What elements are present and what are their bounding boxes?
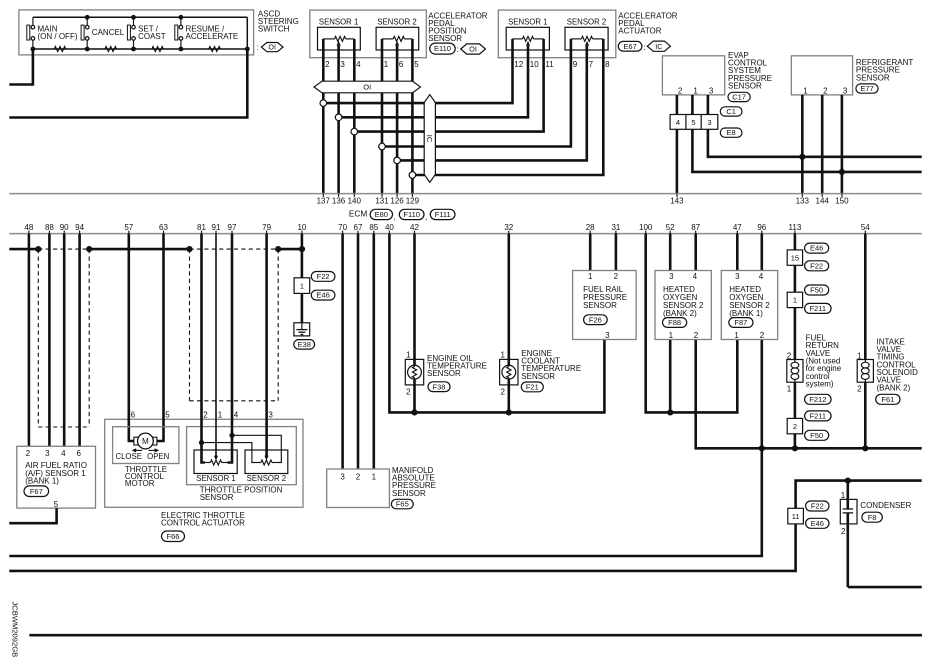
- svg-text:(BANK 1): (BANK 1): [25, 477, 59, 486]
- connector code E46 oval: [805, 243, 829, 253]
- connector code E77 oval: [856, 84, 878, 93]
- svg-text:F26: F26: [589, 315, 602, 324]
- svg-text:2: 2: [841, 527, 846, 536]
- accelerator pedal position sensor box E110: [310, 10, 427, 58]
- svg-text:1: 1: [406, 351, 411, 360]
- svg-text:E80: E80: [375, 210, 388, 219]
- connector code OI hexagon for ASCD switch: [261, 43, 283, 52]
- svg-text:SENSOR: SENSOR: [428, 34, 462, 43]
- wire APP actuator pin 10 joining harness: [339, 46, 528, 118]
- connector code E46 oval: [311, 290, 335, 300]
- inline connector F211/F50 cell 2: [787, 418, 802, 433]
- wire refrigerant sensor pin 3 to ECM pin 150: [841, 95, 844, 194]
- svg-text:87: 87: [691, 223, 700, 232]
- connector code F22 oval: [805, 261, 829, 271]
- svg-text:JCBWM2092GB: JCBWM2092GB: [11, 602, 20, 658]
- svg-text:6: 6: [399, 60, 404, 69]
- wire shield drain to left page edge: [9, 248, 38, 251]
- wire refrigerant sensor pin 2 to ECM pin 144: [821, 95, 824, 194]
- wire APP sensor pin 4 to ECM: [353, 39, 356, 194]
- svg-text:3: 3: [340, 60, 345, 69]
- svg-text:1: 1: [693, 87, 698, 96]
- svg-text:OI: OI: [469, 45, 477, 54]
- solenoid coil fuel return valve: [787, 360, 803, 383]
- svg-text:SENSOR: SENSOR: [200, 493, 234, 502]
- svg-text:2: 2: [694, 331, 699, 340]
- svg-text:94: 94: [75, 223, 84, 232]
- svg-text:2: 2: [857, 384, 862, 393]
- svg-text:SENSOR 2: SENSOR 2: [247, 474, 286, 483]
- svg-text:F38: F38: [433, 382, 446, 391]
- svg-text:F21: F21: [526, 382, 539, 391]
- svg-text:48: 48: [24, 223, 33, 232]
- svg-text:3: 3: [268, 411, 273, 420]
- wire APP sensor pin 1 to ECM: [381, 39, 384, 194]
- connector code F211 oval lower: [805, 411, 832, 421]
- svg-text:F50: F50: [810, 431, 823, 440]
- wire condenser to right page edge: [846, 481, 849, 509]
- svg-text:,: ,: [425, 212, 427, 221]
- svg-text:F50: F50: [810, 286, 823, 295]
- inline connector E46/F22 cell 15: [787, 250, 802, 265]
- svg-text:4: 4: [693, 272, 698, 281]
- svg-text:C17: C17: [732, 93, 746, 102]
- svg-text:4: 4: [759, 272, 764, 281]
- wire ECM pin 113 through fuel return valve: [794, 234, 797, 449]
- engine coolant temperature sensor F21 (thermistor): [500, 359, 518, 385]
- svg-text:system): system): [806, 379, 834, 388]
- svg-text:52: 52: [666, 223, 675, 232]
- wire APP sensor pin 3 to ECM: [337, 46, 340, 194]
- svg-text:3: 3: [605, 331, 610, 340]
- connector code F66 oval: [162, 531, 185, 542]
- wire ECM pin 85 to MAP sensor pin 1: [372, 234, 375, 469]
- wire APP actuator pin 9 joining harness: [382, 39, 571, 147]
- connector code F211 oval: [805, 303, 832, 313]
- svg-text::: :: [644, 43, 646, 52]
- svg-text:SENSOR 1: SENSOR 1: [508, 18, 547, 27]
- svg-text:E38: E38: [298, 340, 311, 349]
- resistor R2 in ASCD ladder: [105, 47, 117, 52]
- svg-text:IC: IC: [425, 135, 434, 143]
- svg-text:140: 140: [348, 197, 362, 206]
- switch CANCEL: [81, 17, 125, 49]
- junction dots on shield drain wire: [35, 246, 41, 252]
- connector code F212 oval: [805, 394, 832, 404]
- wire shield drain to ECM pin 10 net: [278, 248, 302, 251]
- wire HO2S bank2 pin 1 to ground bus: [669, 340, 672, 413]
- svg-text:1: 1: [372, 472, 377, 481]
- svg-text:91: 91: [212, 223, 221, 232]
- svg-text:70: 70: [338, 223, 347, 232]
- svg-text:3: 3: [707, 118, 711, 127]
- svg-text:ACTUATOR: ACTUATOR: [618, 27, 661, 36]
- wire ECM pin 79 to TPS pin 3 wiper: [265, 234, 268, 456]
- svg-text:ACCELERATE: ACCELERATE: [186, 32, 239, 41]
- svg-text:CONTROL ACTUATOR: CONTROL ACTUATOR: [161, 519, 245, 528]
- connector code C17 oval: [728, 92, 750, 101]
- wire HO2S bank2 pin 2 heater supply bus: [696, 340, 922, 449]
- svg-text:4: 4: [234, 411, 239, 420]
- fuel rail pressure sensor box F26: [573, 271, 637, 340]
- svg-text:F8: F8: [868, 513, 877, 522]
- ground symbol E38: [294, 323, 310, 336]
- inline connector C1/E8 cells 4-5-3: [670, 115, 718, 130]
- svg-text:97: 97: [228, 223, 237, 232]
- svg-text:32: 32: [504, 223, 513, 232]
- ECM bottom boundary line: [9, 233, 921, 235]
- svg-text:81: 81: [197, 223, 206, 232]
- junction dot HO2S bank2 pin1 ground: [667, 409, 673, 415]
- svg-text:2: 2: [760, 331, 765, 340]
- resistor R4 in ASCD ladder: [209, 47, 221, 52]
- svg-text:M: M: [142, 437, 149, 446]
- wire ECM pin 28 to fuel rail sensor pin 1: [589, 234, 592, 271]
- svg-text:2: 2: [26, 449, 31, 458]
- svg-text:2: 2: [614, 272, 619, 281]
- wire ECM pin 54 through intake valve timing solenoid: [864, 234, 867, 449]
- shield dashed box around A/F sensor wires: [38, 249, 89, 427]
- svg-text:1: 1: [588, 272, 593, 281]
- svg-text:5: 5: [165, 411, 170, 420]
- svg-text:(ON / OFF): (ON / OFF): [38, 32, 78, 41]
- solenoid coil intake valve timing control valve: [857, 360, 873, 383]
- wire A/F sensor pin 5 to left page edge: [9, 508, 56, 523]
- junction dots on ASCD buses: [85, 15, 90, 20]
- throttle position sensor box: [187, 427, 297, 485]
- svg-text:2: 2: [325, 60, 330, 69]
- resistor R1 in ASCD ladder: [54, 47, 66, 52]
- svg-text:1: 1: [857, 351, 862, 360]
- svg-text:OI: OI: [363, 83, 371, 92]
- electric throttle control actuator box F66: [105, 419, 303, 507]
- potentiometer SENSOR 2 of APP sensor: [376, 18, 419, 50]
- svg-text:,: ,: [393, 212, 395, 221]
- potentiometer TPS SENSOR 1: [194, 450, 237, 483]
- svg-text:F66: F66: [167, 532, 180, 541]
- svg-text:4: 4: [676, 118, 680, 127]
- svg-text:3: 3: [709, 87, 714, 96]
- svg-text:1: 1: [218, 411, 223, 420]
- svg-text:E46: E46: [316, 291, 329, 300]
- svg-text:F211: F211: [810, 411, 827, 420]
- switch RESUME / ACCELERATE: [175, 17, 238, 49]
- connector code F22 oval condenser: [806, 501, 829, 511]
- connector code F22 oval: [311, 272, 335, 282]
- svg-text:54: 54: [861, 223, 870, 232]
- junction dot coolant temp sensor ground: [506, 409, 512, 415]
- svg-text:SWITCH: SWITCH: [258, 25, 290, 34]
- ECM bottom pin ticks and numbers: [24, 223, 870, 234]
- svg-text:5: 5: [414, 60, 419, 69]
- connector code F61 oval: [876, 394, 900, 404]
- svg-text:F67: F67: [30, 487, 43, 496]
- svg-text:F212: F212: [809, 395, 826, 404]
- svg-text:SENSOR: SENSOR: [728, 82, 762, 91]
- svg-text:57: 57: [124, 223, 133, 232]
- svg-text:129: 129: [406, 197, 420, 206]
- svg-text:E8: E8: [727, 128, 736, 137]
- junction dot pin 54 heater bus: [862, 445, 868, 451]
- svg-text:2: 2: [793, 422, 797, 431]
- svg-text:15: 15: [791, 253, 799, 262]
- svg-text:28: 28: [586, 223, 595, 232]
- wire APP actuator pin 8 joining harness: [412, 39, 603, 175]
- svg-text:131: 131: [375, 197, 389, 206]
- svg-text:F22: F22: [317, 272, 330, 281]
- wire ECM pin 47 to HO2S bank1 pin 3: [736, 234, 739, 271]
- junction dot oil temp sensor ground: [411, 409, 417, 415]
- svg-text:5: 5: [691, 118, 695, 127]
- svg-text:F111: F111: [435, 210, 451, 219]
- svg-text:4: 4: [356, 60, 361, 69]
- svg-text:2: 2: [500, 387, 505, 396]
- svg-text:90: 90: [60, 223, 69, 232]
- svg-text:SENSOR: SENSOR: [427, 369, 461, 378]
- wire ECM pin 87 to HO2S bank2 pin 4: [694, 234, 697, 271]
- throttle control motor box: [113, 427, 179, 464]
- svg-text:COAST: COAST: [138, 32, 166, 41]
- svg-text:1: 1: [734, 331, 739, 340]
- wire right branch of ASCD switch: [246, 17, 248, 49]
- junction dot pin 113 heater bus: [792, 445, 798, 451]
- svg-text:6: 6: [76, 449, 81, 458]
- svg-text:(BANK 2): (BANK 2): [877, 383, 911, 392]
- harness code OI banner: [314, 81, 420, 93]
- svg-text:OI: OI: [268, 43, 276, 52]
- junction dot EVAP pin3 / refrigerant pin1 net: [799, 154, 805, 160]
- wire EVAP sensor pin 2 to ECM pin 143: [676, 95, 679, 194]
- connector code F50 oval: [805, 285, 829, 295]
- svg-text::: :: [457, 45, 459, 54]
- svg-text:CANCEL: CANCEL: [92, 28, 125, 37]
- wire ECM pin 63 to throttle motor OPEN brush: [156, 234, 163, 441]
- wire ECM pin 100 to HO2S ground bus: [646, 234, 738, 413]
- svg-text:1: 1: [669, 331, 674, 340]
- svg-text::: :: [256, 43, 258, 52]
- connector code F65 oval: [391, 499, 413, 509]
- svg-text:F22: F22: [811, 502, 824, 511]
- svg-text:SENSOR: SENSOR: [392, 489, 426, 498]
- svg-text:88: 88: [45, 223, 54, 232]
- wire ECM pin 90 to A/F sensor pin 4 (shielded): [63, 234, 66, 447]
- svg-text:3: 3: [45, 449, 50, 458]
- wire ECM pin 57 to throttle motor CLOSE brush: [129, 234, 135, 441]
- branch wire TPS pin 2 to sensor 2 low side: [202, 443, 256, 463]
- wire ASCD signal output to left page edge: [9, 49, 247, 118]
- svg-text:8: 8: [605, 60, 610, 69]
- air fuel ratio sensor 1 box F67: [17, 446, 96, 508]
- wire HO2S bank1 pin 2 to left page edge: [9, 340, 762, 557]
- svg-text:E67: E67: [623, 42, 636, 51]
- ECM top pin ticks and numbers: [317, 194, 849, 206]
- svg-text:F22: F22: [810, 261, 823, 270]
- svg-text:C1: C1: [726, 107, 736, 116]
- wire refrigerant sensor pin 1 to ECM pin 133: [801, 95, 804, 194]
- svg-text:3: 3: [340, 472, 345, 481]
- harness code IC banner: [424, 95, 435, 183]
- wire APP sensor pin 2 to ECM: [322, 39, 325, 194]
- svg-text:SENSOR 1: SENSOR 1: [319, 18, 358, 27]
- wire EVAP sensor pin 3 to right page edge: [708, 95, 922, 157]
- connector code F8 oval: [862, 512, 882, 522]
- svg-text:E77: E77: [860, 84, 873, 93]
- inline connector F50/F211 cell 1: [787, 292, 802, 307]
- svg-text:133: 133: [796, 197, 810, 206]
- wire ASCD MAIN output to left page edge: [9, 49, 33, 85]
- motor M symbol: [134, 433, 157, 449]
- svg-text:OPEN: OPEN: [147, 452, 169, 461]
- connector code IC hexagon for APP actuator: [647, 41, 670, 51]
- switch MAIN (ON / OFF): [27, 17, 78, 49]
- svg-text:1: 1: [500, 351, 505, 360]
- svg-text:4: 4: [61, 449, 66, 458]
- connector code OI hexagon for APP sensor: [461, 44, 486, 54]
- svg-text:SENSOR: SENSOR: [521, 372, 555, 381]
- connector code E38 oval: [294, 340, 315, 350]
- svg-text:67: 67: [354, 223, 363, 232]
- connector code F67 oval: [24, 486, 49, 497]
- svg-text:IC: IC: [655, 42, 662, 51]
- junction dot HO2S bank1 pin2 heater bus: [759, 445, 765, 451]
- svg-text:126: 126: [390, 197, 404, 206]
- svg-text:E46: E46: [811, 519, 824, 528]
- svg-text:79: 79: [262, 223, 271, 232]
- wire APP actuator pin 11 joining harness: [354, 39, 543, 132]
- potentiometer SENSOR 1 of APP actuator: [506, 18, 549, 50]
- wire ECM pin 10 to ground: [301, 234, 304, 323]
- wire ECM pin 70 to MAP sensor pin 3: [341, 234, 344, 469]
- svg-text:1: 1: [787, 384, 792, 393]
- wire APP actuator pin 12 joining harness: [323, 39, 512, 103]
- svg-text:136: 136: [332, 197, 346, 206]
- wire APP sensor pin 6 to ECM: [396, 46, 399, 194]
- svg-text:96: 96: [757, 223, 766, 232]
- connector code E46 oval condenser: [806, 518, 829, 528]
- resistor R3 in ASCD ladder: [152, 47, 164, 52]
- wire ECM pin 94 to A/F sensor pin 6 (shielded): [78, 234, 81, 447]
- ECM top boundary line: [9, 193, 921, 195]
- accelerator pedal actuator box E67: [498, 10, 616, 58]
- wire condenser supply from left page edge via connector 11: [9, 481, 921, 571]
- svg-text:1: 1: [793, 296, 797, 305]
- wire ECM pin 52 to HO2S bank2 pin 3: [669, 234, 672, 271]
- svg-text:5: 5: [54, 500, 59, 509]
- ASCD steering switch box: [19, 10, 254, 55]
- page bottom separator line: [29, 634, 922, 637]
- svg-text:100: 100: [639, 223, 653, 232]
- svg-text:31: 31: [611, 223, 620, 232]
- connector code E110 oval: [430, 43, 456, 54]
- connector code F38 oval: [428, 382, 450, 392]
- svg-text:2: 2: [823, 87, 828, 96]
- EVAP control system pressure sensor box C17: [662, 56, 724, 95]
- svg-text:2: 2: [678, 87, 683, 96]
- svg-text:1: 1: [803, 87, 808, 96]
- wire EVAP sensor pin 1 to right page edge: [692, 95, 921, 172]
- svg-text:10: 10: [297, 223, 306, 232]
- arrow CLOSE direction: [132, 448, 143, 452]
- svg-text:10: 10: [530, 60, 539, 69]
- junction dot condenser tap: [845, 478, 851, 484]
- wire APP actuator pin 7 joining harness: [397, 46, 587, 161]
- svg-text:2: 2: [203, 411, 208, 420]
- wire ECM pin 97 to TPS pin 4: [228, 234, 233, 463]
- inline connector F22/E46 cell 1: [294, 278, 310, 294]
- svg-text:7: 7: [589, 60, 594, 69]
- connector code F87 oval: [729, 318, 753, 328]
- svg-text:2: 2: [356, 472, 361, 481]
- switch SET / COAST: [127, 17, 165, 49]
- wire ECM pin 40 sensor ground bus: [389, 234, 604, 413]
- junction dot TPS pin 4 branch: [229, 433, 234, 438]
- junction dot EVAP pin1 / refrigerant pin3 net: [839, 169, 845, 175]
- refrigerant pressure sensor box E77: [791, 56, 852, 95]
- connector code E8 oval: [720, 128, 742, 137]
- svg-text:6: 6: [131, 411, 136, 420]
- svg-text:MOTOR: MOTOR: [125, 479, 155, 488]
- wire ECM pin 91 to TPS pin 1 wiper: [215, 234, 217, 456]
- svg-text:12: 12: [514, 60, 523, 69]
- svg-text:137: 137: [317, 197, 331, 206]
- svg-text:144: 144: [816, 197, 830, 206]
- svg-text:E46: E46: [810, 244, 823, 253]
- svg-text:1: 1: [384, 60, 389, 69]
- svg-text:11: 11: [792, 512, 800, 521]
- wire ECM pin 96 to HO2S bank1 pin 4: [760, 234, 763, 271]
- svg-text:F211: F211: [810, 304, 827, 313]
- wire ECM pin 48 to A/F sensor pin 2: [28, 234, 31, 447]
- svg-text:113: 113: [789, 223, 802, 232]
- wire ECM pin 67 to MAP sensor pin 2: [357, 234, 360, 469]
- svg-text:2: 2: [787, 351, 792, 360]
- svg-text:11: 11: [545, 60, 554, 69]
- connector code C1 oval: [720, 107, 742, 116]
- svg-text:SENSOR 2: SENSOR 2: [377, 18, 416, 27]
- svg-text:40: 40: [385, 223, 394, 232]
- potentiometer SENSOR 1 of APP sensor: [318, 18, 361, 50]
- wire ECM pin 31 to fuel rail sensor pin 2: [615, 234, 618, 271]
- svg-text:143: 143: [670, 197, 684, 206]
- svg-text:F87: F87: [734, 318, 747, 327]
- shield dashed box around throttle position sensor wires: [190, 249, 279, 401]
- svg-text:SENSOR 1: SENSOR 1: [196, 474, 235, 483]
- svg-text:42: 42: [410, 223, 419, 232]
- wire ECM pin 32 through engine coolant temperature sensor: [507, 234, 510, 413]
- potentiometer SENSOR 2 of APP actuator: [565, 18, 608, 50]
- connector junction circles OI/IC splice: [320, 100, 327, 107]
- label ECM with connector codes E80 F110 F111: [349, 209, 455, 222]
- svg-text:150: 150: [835, 197, 849, 206]
- svg-text:47: 47: [733, 223, 742, 232]
- svg-text:F88: F88: [668, 318, 681, 327]
- svg-text:CLOSE: CLOSE: [115, 452, 141, 461]
- svg-text:2: 2: [406, 387, 411, 396]
- heated oxygen sensor 2 bank 1 box F87: [721, 271, 777, 340]
- wire top bus of ASCD switch: [33, 16, 247, 18]
- junction dot TPS pin 2 branch: [199, 440, 204, 445]
- wire ECM pin 81 to TPS pin 2: [202, 234, 205, 463]
- svg-text:(BANK 1): (BANK 1): [729, 309, 763, 318]
- arrow OPEN direction: [149, 448, 160, 452]
- capacitor condenser F8: [840, 499, 857, 524]
- connector code F50 oval lower: [805, 430, 829, 440]
- inline connector F22/E46 cell 11: [788, 508, 804, 524]
- connector code F21 oval: [521, 382, 543, 392]
- svg-text:3: 3: [843, 87, 848, 96]
- wire APP sensor pin 5 to ECM: [411, 39, 414, 194]
- svg-text:CONDENSER: CONDENSER: [860, 501, 911, 510]
